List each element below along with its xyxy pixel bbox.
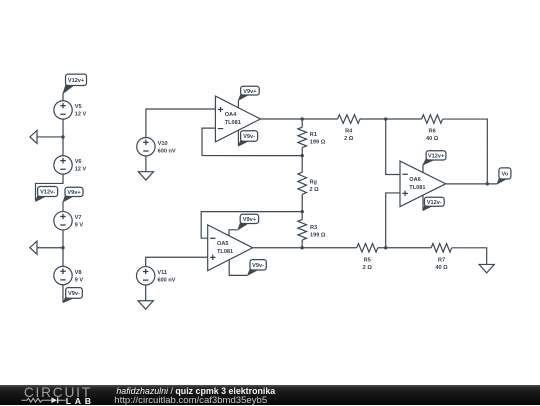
junction node Vo	[486, 182, 489, 185]
wire R7 to ground	[452, 248, 487, 265]
op-amp OA6 TL081	[400, 161, 446, 207]
svg-text:OA4: OA4	[225, 112, 237, 118]
net flag V9v- (OA4 supply)	[238, 131, 257, 146]
svg-text:V9v+: V9v+	[243, 89, 257, 95]
junction node Rg/R3	[300, 210, 303, 213]
wire	[62, 230, 64, 266]
wire OA5 feedback	[201, 212, 302, 239]
net flag V9v+	[63, 187, 83, 202]
voltage source V10 600 nV	[137, 137, 176, 155]
wire OA5 output	[253, 247, 357, 249]
svg-text:V9v-: V9v-	[252, 263, 264, 269]
wire OA4 output	[260, 118, 337, 120]
wire	[62, 285, 64, 302]
svg-text:2 Ω: 2 Ω	[363, 265, 373, 271]
ground	[138, 301, 153, 309]
wire V10 to ground	[145, 156, 147, 172]
wire	[36, 174, 64, 200]
OA4 V+ pin	[237, 100, 239, 108]
wire	[301, 119, 303, 127]
wire	[62, 201, 64, 211]
resistor R6 40 Ohm	[422, 115, 443, 124]
resistor R4 2 Ohm	[338, 115, 361, 124]
footer bar	[0, 385, 540, 406]
svg-text:V9v-: V9v-	[68, 291, 80, 297]
svg-text:R5: R5	[364, 257, 371, 263]
svg-text:R6: R6	[429, 129, 436, 135]
voltage source V6 12 V	[54, 156, 87, 174]
svg-text:2 Ω: 2 Ω	[344, 136, 354, 142]
CircuitLab logo	[21, 384, 91, 405]
svg-text:V12v-: V12v-	[40, 190, 55, 196]
junction node R4/R6	[384, 117, 387, 120]
OA6 V+ pin	[422, 164, 424, 172]
wire	[360, 118, 422, 120]
svg-text:V10: V10	[158, 141, 168, 147]
svg-text:V12v+: V12v+	[68, 78, 85, 84]
svg-text:V12v+: V12v+	[428, 153, 445, 159]
svg-text:LAB: LAB	[66, 396, 91, 406]
svg-text:9 V: 9 V	[75, 277, 84, 283]
resistor R7 40 Ohm	[431, 243, 452, 252]
net flag V9v-	[63, 288, 82, 303]
resistor R1 199 Ohm	[298, 127, 307, 147]
resistor R5 2 Ohm	[357, 243, 378, 252]
wire	[62, 119, 64, 156]
svg-text:Rg: Rg	[310, 179, 318, 185]
svg-text:V9v-: V9v-	[243, 134, 255, 140]
voltage source V7 9 V	[54, 212, 84, 230]
ground	[138, 172, 153, 180]
OA5 V+ pin	[229, 230, 237, 236]
svg-text:12 V: 12 V	[75, 167, 87, 173]
svg-text:R3: R3	[310, 225, 317, 231]
op-amp OA4 TL081	[215, 96, 260, 142]
svg-text:Vo: Vo	[502, 172, 509, 178]
svg-text:V7: V7	[75, 215, 82, 221]
net flag Vo	[497, 168, 511, 184]
svg-text:TL081: TL081	[409, 185, 425, 191]
wire to ground	[37, 247, 63, 249]
svg-text:40 Ω: 40 Ω	[435, 265, 448, 271]
svg-text:600 nV: 600 nV	[157, 277, 175, 283]
svg-text:12 V: 12 V	[75, 112, 87, 118]
net flag V9v+ (OA5 supply)	[238, 214, 259, 230]
svg-text:TL081: TL081	[217, 249, 233, 255]
net flag V12v+	[63, 74, 87, 93]
net flag V12v- (OA6 supply)	[423, 197, 444, 210]
wire V11 to ground	[145, 285, 147, 301]
svg-text:OA6: OA6	[409, 177, 421, 183]
svg-text:V5: V5	[75, 104, 82, 110]
wire to ground	[37, 136, 63, 138]
wire	[378, 247, 431, 249]
wire to OA6 - input	[386, 119, 400, 175]
net flag V9v+ (OA4 supply)	[238, 86, 259, 100]
junction node R1/Rg	[301, 154, 304, 157]
svg-text:R7: R7	[438, 257, 445, 263]
OA6 V- pin	[422, 195, 424, 210]
net flag V9v- (OA5 supply)	[247, 260, 266, 276]
svg-text:TL081: TL081	[225, 120, 241, 126]
svg-text:40 Ω: 40 Ω	[426, 136, 439, 142]
resistor R3 199 Ohm	[298, 220, 307, 240]
junction node OA5 out	[300, 246, 303, 249]
wire V10 to OA4 + input	[146, 109, 216, 138]
svg-text:V6: V6	[75, 159, 82, 165]
net flag V12v+ (OA6 supply)	[423, 151, 446, 165]
svg-text:V11: V11	[157, 270, 167, 276]
junction	[61, 246, 64, 249]
wire	[62, 92, 64, 100]
svg-text:http://circuitlab.com/caf3bmd3: http://circuitlab.com/caf3bmd35eyb5	[114, 395, 267, 406]
svg-text:199 Ω: 199 Ω	[310, 139, 326, 145]
resistor Rg 2 Ohm	[298, 172, 307, 194]
junction	[61, 135, 64, 138]
ground	[479, 264, 494, 272]
svg-text:V9v+: V9v+	[243, 217, 257, 223]
voltage source V8 9 V	[54, 266, 84, 284]
svg-text:R1: R1	[310, 132, 317, 138]
wire OA4 feedback	[202, 128, 302, 156]
voltage source V11 600 nV	[136, 267, 175, 285]
wire	[301, 148, 303, 173]
svg-text:V12v-: V12v-	[427, 200, 442, 206]
svg-text:600 nV: 600 nV	[158, 148, 176, 154]
wire R6 to output node	[443, 119, 488, 184]
wire	[301, 240, 303, 248]
svg-text:199 Ω: 199 Ω	[310, 233, 326, 239]
ground	[30, 241, 37, 254]
net flag V12v-	[36, 187, 58, 202]
wire V11 to OA5 + input	[146, 257, 208, 266]
wire to OA6 + input	[386, 193, 400, 248]
junction node OA4 out	[301, 117, 304, 120]
svg-text:R4: R4	[345, 129, 353, 135]
svg-text:2 Ω: 2 Ω	[310, 187, 320, 193]
svg-text:9 V: 9 V	[75, 222, 84, 228]
svg-text:OA5: OA5	[217, 241, 229, 247]
op-amp OA5 TL081	[208, 225, 253, 271]
wire OA6 output	[446, 183, 497, 185]
voltage source V5 12 V	[54, 101, 87, 119]
svg-text:hafidzhazulni / quiz cpmk 3 el: hafidzhazulni / quiz cpmk 3 elektronika	[116, 385, 275, 395]
ground	[30, 130, 37, 143]
svg-text:V8: V8	[75, 270, 82, 276]
OA5 V- pin	[229, 259, 247, 275]
junction node R5/R7	[384, 246, 387, 249]
svg-text:V9v+: V9v+	[67, 190, 81, 196]
wire	[301, 194, 303, 219]
OA4 V- pin	[237, 130, 239, 146]
